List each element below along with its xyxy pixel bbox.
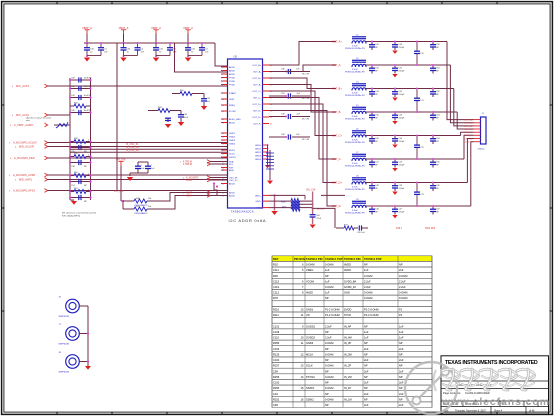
svg-text:WMP622B: WMP622B — [59, 372, 70, 374]
svg-text:IN_4P: IN_4P — [344, 324, 351, 328]
svg-text:NP: NP — [364, 341, 368, 345]
svg-text:OUT_E+: OUT_E+ — [252, 117, 261, 119]
svg-text:C111: C111 — [273, 268, 279, 272]
svg-text:2.2uF: 2.2uF — [364, 285, 371, 289]
svg-text:SW1 DNI: SW1 DNI — [425, 227, 435, 230]
svg-text:R110: R110 — [273, 308, 280, 312]
svg-text:5: 5 — [222, 74, 223, 76]
svg-text:2uF: 2uF — [399, 347, 404, 351]
svg-text:2uF: 2uF — [364, 358, 369, 362]
svg-text:A_MCASP0_PED: A_MCASP0_PED — [14, 156, 35, 160]
svg-text:LRCLK: LRCLK — [229, 157, 237, 159]
svg-text:VBAT_A: VBAT_A — [183, 26, 193, 30]
svg-text:NP: NP — [325, 347, 329, 351]
svg-text:2uF: 2uF — [364, 347, 369, 351]
svg-text:OUT_B+: OUT_B+ — [332, 88, 342, 91]
svg-text:9: 9 — [222, 93, 223, 95]
svg-text:VDD: VDD — [256, 208, 261, 210]
svg-text:4: 4 — [222, 71, 223, 73]
svg-text:NP: NP — [325, 330, 329, 334]
svg-text:PVDD: PVDD — [229, 81, 235, 83]
svg-text:XI_OSC_VD: XI_OSC_VD — [126, 150, 139, 152]
svg-text:C04: C04 — [273, 392, 278, 396]
svg-text:PDS5614-2R2Mx-PS: PDS5614-2R2Mx-PS — [345, 213, 365, 215]
svg-text:TAS5614 PIN: TAS5614 PIN — [306, 257, 322, 261]
svg-text:OUT_C+: OUT_C+ — [332, 135, 342, 138]
svg-text:FREQ: FREQ — [229, 105, 235, 107]
svg-text:OUT_A-: OUT_A- — [253, 71, 261, 74]
svg-text:Thursday, November 8, 2007: Thursday, November 8, 2007 — [455, 410, 486, 413]
svg-text:47034+: 47034+ — [478, 149, 486, 151]
svg-text:NP: NP — [364, 324, 368, 328]
svg-text:IN_4M: IN_4M — [344, 336, 352, 340]
svg-text:3.3uH: 3.3uH — [352, 186, 358, 188]
svg-text:P2-3 0-OHM: P2-3 0-OHM — [364, 313, 379, 317]
svg-text:GVDD_B4: GVDD_B4 — [344, 279, 357, 283]
svg-text:OUT_A+: OUT_A+ — [252, 64, 261, 67]
svg-text:NP: NP — [399, 397, 403, 401]
svg-text:COUT_B-: COUT_B- — [464, 129, 473, 131]
svg-text:1uF: 1uF — [325, 268, 330, 272]
svg-text:13: 13 — [222, 119, 224, 121]
svg-text:OUT_D-: OUT_D- — [332, 205, 341, 208]
svg-text:4R, CF4: 4R, CF4 — [302, 139, 309, 141]
svg-text:A_MCASP0_AXR0: A_MCASP0_AXR0 — [13, 173, 36, 177]
svg-text:REF: REF — [273, 257, 279, 261]
svg-text:2uF: 2uF — [399, 392, 404, 396]
svg-text:ADAT: ADAT — [186, 192, 193, 195]
svg-text:2.2uF: 2.2uF — [399, 285, 406, 289]
svg-text:GND2: GND2 — [229, 137, 236, 139]
svg-text:TPA5614 POP: TPA5614 POP — [364, 257, 382, 261]
svg-text:19: 19 — [222, 150, 224, 152]
svg-text:R02: R02 — [273, 263, 278, 267]
svg-text:GND1: GND1 — [255, 149, 262, 151]
svg-text:OUT_A+: OUT_A+ — [332, 41, 342, 44]
svg-text:12: 12 — [222, 111, 224, 113]
svg-text:P1-2 0-OHM: P1-2 0-OHM — [325, 313, 340, 317]
svg-text:WMP622B: WMP622B — [59, 316, 70, 318]
svg-text:TEXAS INSTRUMENTS INCORPORATED: TEXAS INSTRUMENTS INCORPORATED — [445, 360, 538, 366]
svg-text:Ref: devices in a 2x2 mil fini: Ref: devices in a 2x2 mil finish and the — [62, 212, 97, 215]
svg-text:GND+: GND+ — [255, 196, 262, 198]
svg-text:1uF: 1uF — [325, 291, 330, 295]
svg-text:10: 10 — [222, 99, 224, 101]
svg-text:C110: C110 — [273, 336, 280, 340]
svg-text:C99: C99 — [273, 369, 278, 373]
svg-text:Sheet 4: Sheet 4 — [494, 410, 503, 413]
svg-text:IN_1M: IN_1M — [344, 397, 352, 401]
svg-text:R75: 0402A, (NP75): R75: 0402A, (NP75) — [62, 214, 80, 217]
svg-text:PDS5614-2R2Mx-PS: PDS5614-2R2Mx-PS — [345, 119, 365, 121]
svg-text:3.3uH: 3.3uH — [352, 210, 358, 212]
svg-text:PDS5614-2R2Mx-PS: PDS5614-2R2Mx-PS — [345, 95, 365, 97]
svg-text:Page Contents:: Page Contents: — [443, 391, 461, 395]
svg-text:C115: C115 — [273, 279, 280, 283]
svg-text:NP: NP — [364, 364, 368, 368]
svg-text:10k: 10k — [148, 198, 151, 200]
svg-text:1uF: 1uF — [399, 330, 404, 334]
svg-text:220pF: 220pF — [399, 47, 405, 49]
svg-text:C119: C119 — [273, 285, 280, 289]
svg-text:VIO_1V8: VIO_1V8 — [114, 191, 124, 193]
svg-text:C104: C104 — [273, 358, 280, 362]
svg-text:3.3uH: 3.3uH — [352, 69, 358, 71]
svg-text:3.3uH: 3.3uH — [352, 139, 358, 141]
svg-text:OUT_B+: OUT_B+ — [252, 78, 261, 80]
svg-text:IN_2P: IN_2P — [344, 364, 351, 368]
svg-text:COUT_B+: COUT_B+ — [464, 126, 474, 128]
svg-text:R252: R252 — [273, 397, 280, 401]
svg-text:PDS5614-2R2Mx-PS: PDS5614-2R2Mx-PS — [345, 48, 365, 50]
svg-text:AVDD: AVDD — [229, 66, 235, 69]
svg-text:OUT_B-: OUT_B- — [253, 85, 261, 87]
svg-text:OUT_B-: OUT_B- — [332, 111, 341, 114]
svg-text:0-OHM: 0-OHM — [364, 274, 372, 278]
svg-text:GND0: GND0 — [255, 145, 262, 147]
svg-text:C109: C109 — [273, 330, 280, 334]
svg-text:TAS5614A1DCA: TAS5614A1DCA — [231, 210, 254, 214]
svg-text:220pF: 220pF — [399, 164, 405, 166]
svg-text:3.3uH: 3.3uH — [352, 92, 358, 94]
svg-text:R256: R256 — [273, 375, 280, 379]
svg-text:220pF: 220pF — [399, 70, 405, 72]
svg-text:6: 6 — [222, 78, 223, 80]
svg-text:SDIN2: SDIN2 — [306, 397, 314, 401]
svg-text:A_VBAT_AUDIO: A_VBAT_AUDIO — [14, 123, 33, 127]
svg-text:2uF: 2uF — [364, 381, 369, 385]
svg-text:P2: P2 — [399, 308, 403, 312]
svg-text:2uF: 2uF — [399, 403, 404, 407]
svg-text:2uF: 2uF — [364, 392, 369, 396]
svg-text:GND1: GND1 — [306, 308, 314, 312]
svg-text:OVDD2: OVDD2 — [306, 336, 315, 340]
svg-text:IN_2M: IN_2M — [344, 375, 352, 379]
svg-text:NP: NP — [399, 352, 403, 356]
svg-text:NP: NP — [399, 364, 403, 368]
svg-text:IN_3P: IN_3P — [344, 341, 351, 345]
svg-text:AVDD: AVDD — [229, 195, 235, 198]
svg-text:IN_1P: IN_1P — [344, 386, 351, 390]
svg-text:0-OHM: 0-OHM — [325, 386, 333, 390]
svg-text:AXR3: AXR3 — [186, 179, 193, 182]
svg-text:7: 7 — [222, 81, 223, 83]
svg-text:OUT_C-: OUT_C- — [332, 158, 341, 161]
svg-text:NP: NP — [325, 369, 329, 373]
svg-text:10uF: 10uF — [184, 117, 189, 119]
svg-text:0-OHM: 0-OHM — [364, 296, 372, 300]
svg-text:220pF: 220pF — [399, 94, 405, 96]
svg-text:PIN NUM: PIN NUM — [294, 257, 306, 261]
svg-text:2uF: 2uF — [399, 381, 404, 385]
svg-text:20: 20 — [222, 154, 224, 156]
svg-text:OUT_D-: OUT_D- — [253, 111, 261, 113]
svg-text:VCOM: VCOM — [306, 279, 314, 283]
svg-text:NP: NP — [325, 274, 329, 278]
svg-text:U5: U5 — [234, 55, 238, 59]
svg-text:3.3uH: 3.3uH — [352, 163, 358, 165]
svg-text:2uF: 2uF — [364, 369, 369, 373]
svg-text:IN_3M: IN_3M — [344, 352, 352, 356]
svg-text:GND4: GND4 — [255, 159, 262, 161]
svg-text:220pF: 220pF — [399, 141, 405, 143]
svg-text:COUT_D+: COUT_D+ — [464, 138, 474, 140]
svg-text:2.2uF: 2.2uF — [325, 336, 332, 340]
svg-text:P2: P2 — [399, 313, 403, 317]
svg-text:ADIN: ADIN — [186, 195, 192, 198]
svg-text:TPA5614 PIN: TPA5614 PIN — [344, 257, 360, 261]
svg-text:COUT_D-: COUT_D- — [464, 142, 473, 144]
svg-text:1uF: 1uF — [364, 330, 369, 334]
svg-text:14: 14 — [222, 123, 224, 125]
svg-text:GVDD_32: GVDD_32 — [344, 285, 356, 289]
svg-text:AVDD: AVDD — [229, 70, 235, 73]
svg-text:VBAT_A: VBAT_A — [151, 26, 161, 30]
svg-text:AVDD: AVDD — [229, 73, 235, 76]
svg-text:COUT_C-: COUT_C- — [464, 135, 473, 137]
svg-text:allow this to attach the panel: allow this to attach the panel — [26, 117, 52, 120]
svg-text:11: 11 — [222, 105, 224, 107]
svg-text:0-OHM: 0-OHM — [325, 364, 333, 368]
svg-text:AVDD: AVDD — [229, 183, 235, 186]
svg-text:AVSS_GND: AVSS_GND — [229, 118, 241, 121]
svg-text:TAS5614 POP: TAS5614 POP — [325, 257, 343, 261]
svg-text:PDS5614-2R2Mx-PS: PDS5614-2R2Mx-PS — [345, 189, 365, 191]
svg-text:SCLK: SCLK — [306, 364, 313, 368]
svg-text:NP: NP — [325, 381, 329, 385]
svg-text:MIC_AUX3: MIC_AUX3 — [16, 84, 30, 88]
svg-text:4R, CF4: 4R, CF4 — [302, 119, 309, 121]
svg-text:2uF: 2uF — [399, 268, 404, 272]
svg-text:LTB5614ABCD: LTB5614ABCD — [134, 212, 148, 215]
svg-text:A_MCASP0_AFSX: A_MCASP0_AFSX — [13, 189, 35, 193]
svg-text:15: 15 — [222, 133, 224, 135]
svg-text:AVDD: AVDD — [229, 192, 235, 195]
svg-text:XI_OSC_IN: XI_OSC_IN — [126, 144, 138, 146]
svg-text:OSC_IO: OSC_IO — [229, 180, 238, 182]
svg-text:AVDD: AVDD — [344, 268, 351, 272]
svg-text:NP: NP — [325, 403, 329, 407]
svg-text:NB P: NB P — [282, 207, 287, 209]
svg-text:0-OHM: 0-OHM — [399, 296, 407, 300]
svg-text:VIO_1V8: VIO_1V8 — [116, 159, 126, 161]
svg-text:1uF: 1uF — [364, 268, 369, 272]
svg-text:NP: NP — [364, 375, 368, 379]
svg-text:GND3: GND3 — [229, 140, 236, 142]
svg-text:C101: C101 — [273, 324, 280, 328]
svg-text:LRST: LRST — [229, 99, 235, 101]
svg-text:1uF: 1uF — [399, 324, 404, 328]
svg-text:4R, CF4: 4R, CF4 — [302, 74, 309, 76]
svg-text:MCLK: MCLK — [229, 150, 236, 152]
svg-text:PVDD: PVDD — [229, 85, 235, 87]
svg-text:XI_OSC_FB: XI_OSC_FB — [126, 147, 139, 149]
svg-text:3: 3 — [222, 67, 223, 69]
svg-text:2.2uF: 2.2uF — [399, 279, 406, 283]
svg-text:GND2: GND2 — [255, 152, 262, 154]
svg-text:NP: NP — [325, 296, 329, 300]
svg-text:NP: NP — [364, 263, 368, 267]
svg-text:P1-2 0-OHM: P1-2 0-OHM — [325, 308, 340, 312]
svg-text:OUT_D+: OUT_D+ — [252, 104, 261, 106]
svg-text:GND1: GND1 — [229, 133, 236, 135]
svg-text:NP: NP — [399, 375, 403, 379]
svg-text:2uF: 2uF — [399, 369, 404, 373]
svg-text:P2-3 0-OHM: P2-3 0-OHM — [364, 308, 379, 312]
svg-text:OUT_C-: OUT_C- — [253, 98, 261, 100]
svg-text:4.TR5.M: 4.TR5.M — [183, 164, 192, 166]
svg-text:NP: NP — [325, 392, 329, 396]
svg-text:R250: R250 — [273, 386, 280, 390]
svg-text:OUDD1: OUDD1 — [306, 324, 316, 328]
svg-text:3.3uH: 3.3uH — [352, 45, 358, 47]
svg-text:PDS5614-2R2Mx-PS: PDS5614-2R2Mx-PS — [345, 166, 365, 168]
svg-text:R00: R00 — [273, 274, 278, 278]
svg-text:10k: 10k — [148, 206, 151, 208]
svg-text:SYNC: SYNC — [344, 313, 351, 317]
svg-text:.47uF: .47uF — [316, 218, 322, 220]
svg-text:R111: R111 — [273, 313, 279, 317]
svg-text:C99 1uF: C99 1uF — [357, 232, 365, 234]
svg-text:PSYNC: PSYNC — [306, 375, 315, 379]
svg-text:R257: R257 — [273, 364, 280, 368]
svg-text:0-OHM: 0-OHM — [399, 291, 407, 295]
svg-text:MCLK: MCLK — [306, 352, 313, 356]
svg-text:VBAT_A: VBAT_A — [82, 26, 92, 30]
svg-text:NP: NP — [399, 386, 403, 390]
svg-text:COUT_C+: COUT_C+ — [464, 132, 474, 134]
svg-text:GND3: GND3 — [255, 156, 262, 158]
svg-text:of 46: of 46 — [529, 410, 535, 413]
svg-text:WMP622B: WMP622B — [59, 344, 70, 346]
svg-text:START: START — [229, 92, 237, 95]
svg-text:SDATA: SDATA — [306, 386, 315, 390]
svg-text:A_MCASP0_ACLKX: A_MCASP0_ACLKX — [13, 141, 37, 145]
svg-text:25: 25 — [222, 170, 224, 172]
svg-text:C100: C100 — [273, 381, 280, 385]
svg-text:OUT_F-: OUT_F- — [253, 124, 261, 126]
svg-text:R050: R050 — [273, 341, 280, 345]
svg-text:2uF: 2uF — [399, 358, 404, 362]
svg-text:NP: NP — [399, 341, 403, 345]
svg-text:NP: NP — [364, 352, 368, 356]
svg-text:AVDD: AVDD — [306, 291, 313, 295]
svg-text:OUT_D+: OUT_D+ — [332, 182, 342, 185]
svg-text:OUT_C+: OUT_C+ — [252, 91, 261, 93]
svg-text:28: 28 — [222, 184, 224, 186]
svg-text:AVDD: AVDD — [229, 122, 235, 125]
svg-text:18: 18 — [222, 144, 224, 146]
svg-text:0-OHM: 0-OHM — [325, 352, 333, 356]
svg-text:1uF: 1uF — [325, 279, 330, 283]
svg-text:1uF: 1uF — [399, 336, 404, 340]
svg-text:SCLK: SCLK — [229, 154, 235, 156]
svg-text:PDS5614-2R2Mx-PS: PDS5614-2R2Mx-PS — [345, 72, 365, 74]
svg-text:MID_AXR1: MID_AXR1 — [19, 178, 33, 182]
svg-text:DVDD: DVDD — [344, 308, 351, 312]
svg-text:VBAT_A: VBAT_A — [119, 26, 129, 30]
svg-text:MID_ACLKR: MID_ACLKR — [19, 145, 34, 149]
svg-text:2.2uF: 2.2uF — [325, 324, 332, 328]
svg-text:OUT_A-: OUT_A- — [332, 64, 341, 67]
svg-text:COUT_A-: COUT_A- — [464, 122, 473, 125]
svg-text:SUE 1: SUE 1 — [281, 202, 286, 204]
svg-text:GND4: GND4 — [229, 144, 236, 146]
svg-text:NP: NP — [364, 386, 368, 390]
svg-text:220pF: 220pF — [399, 117, 405, 119]
svg-text:PDS5614-2R2Mx-PS: PDS5614-2R2Mx-PS — [345, 142, 365, 144]
svg-text:0-OHM: 0-OHM — [325, 285, 333, 289]
svg-text:R125: R125 — [273, 352, 280, 356]
svg-text:www.elecfans.com: www.elecfans.com — [441, 396, 550, 408]
svg-text:3.3uH: 3.3uH — [352, 116, 358, 118]
svg-text:4R, CF4: 4R, CF4 — [302, 98, 309, 100]
svg-text:220pF: 220pF — [399, 211, 405, 213]
svg-text:VIO_1V8: VIO_1V8 — [306, 190, 316, 192]
svg-text:0-OHM: 0-OHM — [399, 274, 407, 278]
svg-text:NP: NP — [399, 263, 403, 267]
svg-text:CLASS-D AMPLIFIER: CLASS-D AMPLIFIER — [465, 392, 490, 395]
svg-text:0-OHM: 0-OHM — [325, 263, 333, 267]
svg-text:FCOM: FCOM — [229, 111, 236, 113]
svg-text:ADR: ADR — [229, 169, 234, 172]
svg-text:MIC_AUX2: MIC_AUX2 — [16, 113, 30, 117]
svg-text:2.2uF: 2.2uF — [364, 279, 371, 283]
svg-text:0-OHM: 0-OHM — [325, 375, 333, 379]
svg-text:GND-: GND- — [255, 201, 261, 203]
svg-text:0-OHM: 0-OHM — [325, 341, 333, 345]
svg-text:2uF: 2uF — [364, 403, 369, 407]
svg-text:DNI 1: DNI 1 — [396, 227, 403, 230]
svg-text:0-OHM: 0-OHM — [325, 397, 333, 401]
svg-text:VREG: VREG — [306, 268, 313, 272]
svg-text:0-OHM: 0-OHM — [364, 291, 372, 295]
svg-text:C112: C112 — [273, 291, 280, 295]
svg-text:220pF: 220pF — [399, 188, 405, 190]
svg-text:C99: C99 — [273, 403, 278, 407]
svg-text:VD: VD — [306, 313, 310, 317]
svg-text:NP: NP — [325, 358, 329, 362]
svg-text:PVDD: PVDD — [229, 78, 235, 80]
svg-text:COUT_A+: COUT_A+ — [464, 119, 474, 122]
svg-text:0-OHM: 0-OHM — [306, 263, 314, 267]
svg-text:AVDD: AVDD — [344, 263, 351, 267]
svg-text:16: 16 — [222, 137, 224, 139]
svg-text:1uF: 1uF — [364, 336, 369, 340]
svg-text:NP: NP — [364, 397, 368, 401]
svg-text:GND: GND — [344, 291, 350, 295]
svg-text:I2C ADDR 0x6A: I2C ADDR 0x6A — [229, 218, 267, 223]
svg-text:C102: C102 — [273, 347, 280, 351]
svg-text:R78: R78 — [273, 296, 278, 300]
svg-text:17: 17 — [222, 140, 224, 142]
svg-text:GND3: GND3 — [306, 341, 314, 345]
